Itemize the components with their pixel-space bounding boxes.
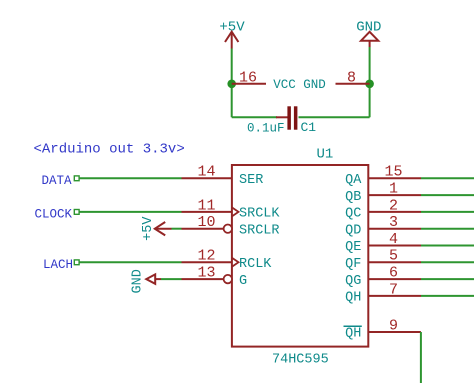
pin 6 QG [345,265,421,289]
svg-text:16: 16 [239,69,257,86]
wire [420,332,422,383]
svg-text:11: 11 [197,197,215,214]
wire [80,177,182,179]
pin 3 QD [345,214,421,238]
svg-text:13: 13 [197,265,215,282]
pin 4 QE [345,231,421,255]
power flag +5V (at pin 10) [141,216,172,241]
svg-text:9: 9 [389,317,398,334]
svg-text:10: 10 [197,214,215,231]
svg-text:14: 14 [197,164,215,181]
pin 9 QH' (inverted output) [344,317,421,341]
pin 14 SER [182,164,264,188]
wire [421,261,474,263]
svg-text:7: 7 [389,281,398,298]
svg-text:+5V: +5V [141,216,156,241]
svg-text:6: 6 [389,265,398,282]
pin 5 QF [345,248,421,272]
pin 11 SRCLK [182,197,281,221]
power flag GND (top) [356,19,381,47]
power flag GND (at pin 13) [130,269,161,293]
pin 16 VCC [232,69,266,86]
wire [231,49,233,118]
svg-text:2: 2 [389,197,398,214]
wire [80,261,182,263]
svg-text:15: 15 [384,164,402,181]
svg-text:QA: QA [345,173,362,188]
pin 15 QA [345,164,421,188]
power flag +5V (top) [219,20,245,49]
svg-text:12: 12 [197,248,215,265]
wire [421,278,474,280]
pin 2 QC [345,197,421,221]
svg-text:1: 1 [389,181,398,198]
svg-text:SRCLR: SRCLR [239,223,280,238]
svg-text:SRCLK: SRCLK [239,207,280,222]
capacitor C1 0.1uF [247,106,316,135]
pin 7 QH [345,281,421,305]
svg-text:G: G [239,274,247,289]
svg-text:RCLK: RCLK [239,257,272,272]
IC U1 74HC595 body [232,147,368,368]
svg-text:QE: QE [345,240,361,255]
svg-text:U1: U1 [317,147,334,163]
pin 8 GND [336,69,370,86]
svg-text:QD: QD [345,223,361,238]
junction [227,80,236,89]
pin 1 QB [345,181,421,205]
pin 12 RCLK [182,248,273,272]
wire [232,116,277,118]
svg-text:74HC595: 74HC595 [272,353,329,368]
svg-text:4: 4 [389,231,398,248]
svg-text:QF: QF [345,257,361,272]
wire start square [74,260,79,265]
svg-text:C1: C1 [301,120,317,135]
svg-text:QG: QG [345,274,361,289]
wire [80,211,182,213]
wire start square [74,176,79,181]
wire [421,245,474,247]
wire [421,177,474,179]
svg-text:QH: QH [345,291,361,306]
wire [421,295,474,297]
svg-text:GND: GND [130,269,145,293]
svg-text:LACH: LACH [43,258,73,272]
svg-text:8: 8 [347,69,356,86]
svg-text:QC: QC [345,207,361,222]
svg-text:0.1uF: 0.1uF [247,122,285,136]
wire start square [74,210,79,215]
svg-text:VCC GND: VCC GND [273,78,326,92]
svg-text:QB: QB [345,190,361,205]
pin 10 SRCLR (inverted) [182,214,280,238]
svg-text:CLOCK: CLOCK [34,208,72,222]
wire [421,228,474,230]
wire [172,228,182,230]
wire [299,116,370,118]
junction [365,80,374,89]
svg-text:SER: SER [239,173,263,188]
wire [369,47,371,117]
svg-text:<Arduino out 3.3v>: <Arduino out 3.3v> [34,142,185,158]
svg-text:3: 3 [389,214,398,231]
svg-text:5: 5 [389,248,398,265]
wire [421,211,474,213]
wire [161,278,182,280]
wire [421,194,474,196]
pin 13 G (inverted) [182,265,248,289]
svg-text:DATA: DATA [41,174,72,188]
svg-text:QH: QH [345,327,361,342]
